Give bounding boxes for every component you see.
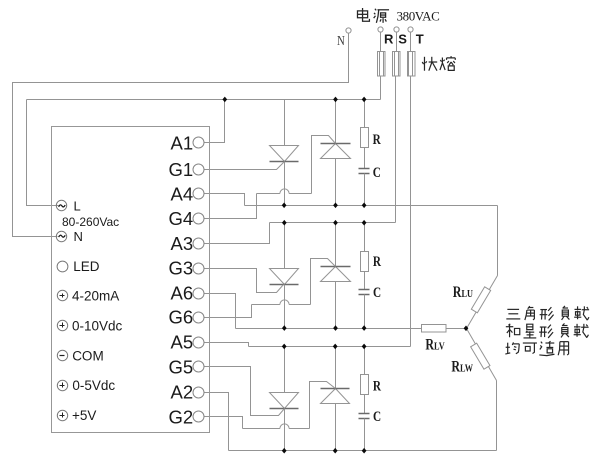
junction A1/R bus bbox=[222, 97, 227, 103]
thyristor SCR3 bbox=[270, 269, 299, 285]
terminal A1 bbox=[193, 137, 204, 148]
wire SCR1 anode from R bus bbox=[284, 100, 286, 146]
wire S phase bus bbox=[270, 222, 396, 224]
wire G3 to SCR3 gate bbox=[204, 269, 284, 293]
svg-text:C: C bbox=[373, 283, 381, 300]
wire R fuse to R bus bbox=[380, 77, 382, 100]
terminal A3 bbox=[193, 238, 204, 249]
fuse FU3 (T phase) bbox=[408, 52, 416, 77]
terminal 0-10Vdc input bbox=[57, 320, 67, 330]
terminal A6 bbox=[193, 288, 204, 299]
wire V output bus bbox=[236, 328, 422, 330]
svg-text:0-5Vdc: 0-5Vdc bbox=[72, 378, 115, 393]
wire A3 to S bus bbox=[204, 223, 270, 244]
svg-text:4-20mA: 4-20mA bbox=[72, 288, 119, 303]
wire U bus down to RLU bbox=[497, 206, 499, 276]
svg-text:G2: G2 bbox=[169, 406, 194, 427]
svg-text:R: R bbox=[373, 252, 381, 269]
wire A4 to U bus bbox=[204, 194, 245, 206]
wire C3 to W bus bbox=[364, 419, 366, 451]
resistor RLU bbox=[471, 287, 490, 313]
wire W output bus bbox=[229, 450, 497, 452]
svg-text:A6: A6 bbox=[171, 283, 194, 304]
node R supply terminal bbox=[378, 27, 383, 32]
wire G6 to SCR6 gate bbox=[204, 305, 252, 318]
fuse FU1 (R phase) bbox=[378, 52, 386, 77]
junction SCR1 cathode/U bus bbox=[282, 203, 287, 209]
svg-text:G4: G4 bbox=[169, 208, 194, 229]
wire N supply down-left-down to box N input bbox=[13, 34, 349, 237]
wire R phase bus bbox=[27, 99, 381, 101]
wire C2 to V bus bbox=[364, 295, 366, 329]
wire A1 to R bus bbox=[204, 100, 225, 143]
junction SCR2 anode/W bus bbox=[333, 448, 338, 454]
svg-text:RLU: RLU bbox=[453, 283, 473, 301]
junction SCR5 cathode/W bus bbox=[282, 448, 287, 454]
wire SCR4 cathode to R bus bbox=[335, 100, 337, 144]
note 三角形负载/和星形负载/均可适用 (delta or star load applicable) bbox=[506, 309, 520, 319]
svg-text:G3: G3 bbox=[169, 258, 194, 279]
wire RLW diagonal bbox=[467, 329, 497, 381]
node star point junction bbox=[464, 326, 469, 332]
resistor RLV bbox=[422, 325, 447, 333]
wire A6 to V bus bbox=[204, 294, 236, 329]
wire SCR3 cathode to V bus bbox=[284, 285, 286, 329]
terminal LED indicator bbox=[57, 261, 68, 272]
node N supply terminal bbox=[346, 28, 351, 33]
fuse FU2 (S phase) bbox=[393, 52, 401, 77]
junction SCR5 anode/T bus bbox=[282, 344, 287, 350]
thyristor SCR2 bbox=[321, 389, 350, 404]
junction SCR2 cathode/T bus bbox=[333, 344, 338, 350]
junction snubber3/T bus bbox=[362, 344, 367, 350]
wire T phase bus bbox=[249, 346, 411, 348]
junction SCR3 cathode/V bus bbox=[282, 325, 287, 331]
svg-text:L: L bbox=[74, 199, 81, 214]
node T supply terminal bbox=[408, 27, 413, 32]
wire SCR5 anode from T bus bbox=[284, 347, 286, 393]
wire RLU diagonal bbox=[467, 276, 498, 329]
svg-text:LED: LED bbox=[73, 259, 100, 274]
junction SCR4 cathode/R bus bbox=[333, 97, 338, 103]
svg-text:C: C bbox=[373, 407, 381, 424]
wire RLV to star point bbox=[447, 328, 467, 330]
wire U output bus bbox=[245, 205, 498, 207]
junction SCR3 anode/S bus bbox=[282, 220, 287, 226]
wire SCR2 anode to W bus bbox=[335, 404, 337, 451]
junction C2/V bus bbox=[362, 325, 367, 331]
thyristor SCR1 bbox=[270, 146, 299, 162]
wire SCR1 cathode to U bus bbox=[284, 162, 286, 206]
junction C1/U bus bbox=[362, 203, 367, 209]
terminal 4-20mA input bbox=[57, 290, 67, 300]
junction SCR4 anode/U bus bbox=[333, 203, 338, 209]
svg-text:RLV: RLV bbox=[425, 336, 444, 354]
svg-text:C: C bbox=[373, 163, 381, 180]
terminal G4 bbox=[193, 213, 204, 224]
junction C3/W bus bbox=[362, 448, 367, 454]
wire G1 to SCR1 gate bbox=[204, 162, 285, 170]
terminal 0-5Vdc input bbox=[57, 380, 67, 390]
svg-text:G1: G1 bbox=[169, 159, 194, 180]
svg-text:A1: A1 bbox=[171, 132, 194, 153]
resistor RLW bbox=[471, 343, 490, 369]
capacitor C snubber 1 bbox=[359, 168, 370, 170]
wire SCR2 cathode to T bus bbox=[335, 347, 337, 389]
svg-text:380VAC: 380VAC bbox=[397, 9, 440, 24]
terminal A2 bbox=[193, 387, 204, 398]
svg-text:G5: G5 bbox=[169, 356, 194, 377]
junction SCR6 cathode/S bus bbox=[333, 220, 338, 226]
terminal G3 bbox=[193, 263, 204, 274]
terminal COM bbox=[57, 350, 67, 360]
terminal A5 bbox=[193, 337, 204, 348]
wire RLW down to W bus bbox=[496, 381, 498, 451]
svg-text:COM: COM bbox=[72, 348, 104, 363]
wire A2 to W bus bbox=[204, 393, 229, 451]
controller box bbox=[52, 127, 210, 433]
svg-text:80-260Vac: 80-260Vac bbox=[62, 215, 119, 229]
resistor R snubber 3 bbox=[364, 347, 366, 375]
wire G4 to SCR4 gate bbox=[204, 194, 257, 219]
capacitor C snubber 2 bbox=[359, 289, 370, 291]
resistor R snubber 2 bbox=[364, 223, 366, 252]
terminal G6 bbox=[193, 312, 204, 323]
node S supply terminal bbox=[394, 27, 399, 32]
terminal A4 bbox=[193, 188, 204, 199]
svg-text:S: S bbox=[398, 32, 407, 47]
junction snubber2/S bus bbox=[362, 220, 367, 226]
wire SCR4 anode to U bus bbox=[335, 159, 337, 206]
svg-text:R: R bbox=[373, 130, 381, 147]
svg-text:N: N bbox=[74, 229, 83, 244]
wire S supply to fuse bbox=[396, 32, 398, 52]
svg-text:RLW: RLW bbox=[451, 358, 473, 376]
wire C1 to U bus bbox=[364, 174, 366, 206]
junction snubber1/R bus bbox=[362, 97, 367, 103]
terminal G2 bbox=[193, 411, 204, 422]
thyristor SCR6 bbox=[321, 267, 351, 282]
svg-text:T: T bbox=[416, 32, 424, 47]
thyristor SCR5 bbox=[270, 393, 299, 409]
svg-text:A5: A5 bbox=[171, 332, 194, 353]
thyristor SCR4 bbox=[321, 144, 351, 159]
svg-text:N: N bbox=[337, 33, 345, 48]
terminal G5 bbox=[193, 361, 204, 372]
svg-text:R: R bbox=[384, 32, 394, 47]
junction SCR6 anode/V bus bbox=[333, 325, 338, 331]
label 快熔 (fast fuse) bbox=[422, 57, 437, 71]
wire SCR3 anode from S bus bbox=[284, 223, 286, 269]
svg-text:0-10Vdc: 0-10Vdc bbox=[72, 318, 123, 333]
wire T fuse down to T bus bbox=[410, 77, 412, 347]
wire L feed from R bus to box L input bbox=[27, 100, 59, 206]
terminal +5V output bbox=[57, 410, 67, 420]
wire S fuse down to S bus bbox=[395, 77, 397, 223]
svg-text:A3: A3 bbox=[171, 233, 194, 254]
wire G2 to SCR2 gate bbox=[204, 417, 243, 429]
wire SCR6 anode to V bus bbox=[335, 282, 337, 329]
resistor R snubber 1 bbox=[364, 100, 366, 128]
wire A5 to T bus bbox=[204, 343, 249, 347]
wire T supply to fuse bbox=[410, 32, 412, 52]
svg-text:R: R bbox=[373, 377, 381, 394]
terminal G1 bbox=[193, 164, 204, 175]
svg-text:A4: A4 bbox=[171, 183, 194, 204]
svg-text:G6: G6 bbox=[169, 307, 194, 328]
svg-text:A2: A2 bbox=[171, 381, 194, 402]
svg-text:+5V: +5V bbox=[72, 408, 96, 423]
wire R supply to fuse bbox=[380, 32, 382, 52]
label 电源 (power) bbox=[357, 8, 369, 21]
wire SCR5 cathode to W bus bbox=[284, 409, 286, 451]
wire SCR6 cathode to S bus bbox=[335, 223, 337, 267]
terminal L (line input) bbox=[56, 200, 66, 210]
terminal N (neutral input) bbox=[56, 231, 66, 241]
capacitor C snubber 3 bbox=[359, 413, 370, 415]
wire G5 to SCR5 gate bbox=[204, 367, 285, 416]
